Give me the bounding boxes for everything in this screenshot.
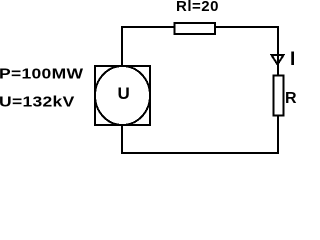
label I <box>290 50 295 69</box>
label U=132kV <box>0 95 75 110</box>
resistor Rl <box>175 23 216 34</box>
label P=100MW <box>0 67 83 82</box>
source U square <box>95 66 150 125</box>
wire bottom horizontal <box>121 152 279 154</box>
label Rl=20 <box>176 0 219 14</box>
label R <box>285 91 297 107</box>
wire left vertical lower <box>121 124 123 154</box>
resistor R <box>274 76 284 116</box>
current arrow I <box>272 55 284 65</box>
label U (source) <box>118 85 130 102</box>
wire top horizontal <box>121 26 279 28</box>
wire left vertical upper <box>121 26 123 67</box>
wire right vertical <box>277 26 279 154</box>
source U circle <box>95 66 150 125</box>
